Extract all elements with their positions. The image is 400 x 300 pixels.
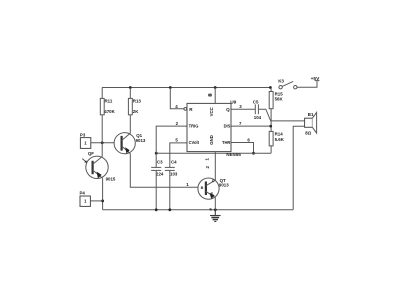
transistor Q1	[114, 133, 146, 154]
wire: QF emitter to ground rail	[102, 178, 104, 210]
wire: rail junction to R15 top	[270, 88, 272, 92]
node: R13 top junction	[129, 86, 132, 89]
svg-text:9013: 9013	[136, 138, 146, 143]
svg-text:NE555: NE555	[226, 152, 241, 158]
svg-text:9013: 9013	[219, 183, 229, 188]
svg-text:4: 4	[175, 104, 178, 109]
svg-text:1: 1	[204, 158, 209, 161]
wire: switch to +5V	[297, 81, 317, 88]
svg-text:R13: R13	[133, 99, 142, 104]
node: reset net junction	[169, 86, 172, 89]
wire: 555 CVolt pin 5 down to C4	[170, 143, 187, 167]
svg-text:1: 1	[186, 182, 189, 187]
svg-text:470K: 470K	[104, 109, 115, 114]
speaker B1	[305, 112, 317, 135]
svg-text:3: 3	[239, 104, 242, 109]
svg-text:C5: C5	[253, 99, 259, 104]
svg-text:TRIG: TRIG	[189, 123, 199, 128]
capacitor C3	[151, 160, 164, 177]
wire: C4 to ground rail	[169, 170, 171, 209]
wire: 555 THR pin 6 down to bus	[231, 143, 254, 154]
svg-text:B1: B1	[308, 112, 314, 117]
wire: +5V top rail	[102, 87, 270, 89]
svg-text:C3: C3	[157, 160, 163, 165]
resistor R14	[269, 131, 285, 146]
wire: 555 GND pin 1 to QT collector	[214, 152, 216, 181]
svg-text:224: 224	[156, 172, 164, 177]
connector P3	[80, 133, 91, 149]
wire: 555 output pin 3 to C5	[231, 108, 255, 110]
wire: R15 bottom to R14 top	[270, 109, 272, 132]
node: Q1 base junction	[101, 141, 104, 144]
node: C4 ground junction	[168, 208, 171, 211]
wire: rail to 555 reset pin 4	[170, 88, 183, 109]
wire: 555 DIS pin 7 to junction	[231, 125, 270, 127]
svg-text:K3: K3	[278, 78, 284, 83]
capacitor C4	[165, 160, 178, 177]
wire: R13 bottom to Q1 collector	[129, 115, 131, 134]
resistor R15	[269, 92, 283, 109]
svg-text:104: 104	[254, 115, 262, 120]
resistor R13	[128, 98, 141, 114]
wire: rail down to R13	[129, 88, 131, 99]
svg-text:DIS: DIS	[224, 123, 231, 128]
svg-text:8: 8	[208, 93, 213, 96]
svg-text:103: 103	[170, 172, 178, 177]
svg-text:7: 7	[239, 121, 242, 126]
svg-text:C: C	[212, 179, 215, 183]
svg-text:56K: 56K	[275, 97, 284, 102]
svg-text:5.6K: 5.6K	[275, 137, 285, 142]
ground	[210, 210, 221, 222]
node: TRIG C3 junction	[155, 152, 158, 155]
wire: R14 bottom to bus	[270, 146, 272, 153]
wire: 555 TRIG pin 2 down to C3	[156, 126, 187, 167]
wire: rail to 555 VCC pin 8	[214, 88, 216, 104]
wire: ground rail	[103, 209, 294, 211]
wire: QT emitter to ground rail	[214, 197, 216, 209]
svg-text:C4: C4	[171, 160, 177, 165]
wire: P3 to Q1 base	[91, 142, 122, 144]
svg-text:THR: THR	[222, 140, 230, 145]
node: P4 junction	[101, 200, 104, 203]
node: VCC pin junction	[214, 86, 217, 89]
svg-text:E: E	[211, 192, 214, 196]
connector P4	[80, 191, 91, 207]
svg-text:2: 2	[176, 121, 179, 126]
svg-text:+5V: +5V	[311, 76, 320, 82]
svg-text:Q: Q	[226, 107, 230, 112]
wire: Q1 emitter down and right to QT base	[130, 154, 204, 188]
svg-text:CVolt: CVolt	[189, 140, 200, 145]
op-amp U9 NE555 timer	[184, 100, 241, 158]
svg-text:GND: GND	[209, 135, 214, 145]
svg-text:2: 2	[205, 166, 210, 169]
svg-text:6: 6	[247, 138, 250, 143]
wire: timing bus TRIG/THR	[156, 152, 271, 154]
wire: R11 bottom to QF collector	[101, 115, 103, 157]
svg-text:8Ω: 8Ω	[305, 131, 311, 136]
svg-text:QF: QF	[88, 151, 94, 156]
transistor QF	[82, 151, 116, 182]
svg-text:U9: U9	[230, 100, 236, 106]
transistor QT	[198, 178, 229, 199]
svg-text:B: B	[201, 186, 204, 190]
svg-text:9015: 9015	[106, 177, 116, 182]
wire: C3 to ground rail	[155, 170, 157, 209]
svg-text:5: 5	[175, 138, 178, 143]
svg-text:R11: R11	[105, 99, 113, 104]
power +5V	[311, 76, 320, 82]
wire: ground rail up to speaker minus	[293, 126, 304, 210]
svg-text:VCC: VCC	[209, 107, 214, 116]
node: DIS junction	[269, 125, 272, 128]
svg-text:P3: P3	[80, 133, 86, 138]
node: switch junction	[269, 86, 272, 89]
node: C3 ground junction	[155, 208, 158, 211]
svg-text:P4: P4	[80, 191, 86, 196]
switch K3	[278, 78, 297, 89]
wire: C5 to speaker plus	[259, 109, 305, 121]
wire: P4 to QF emitter	[90, 200, 102, 202]
node: THR bus junction	[252, 152, 255, 155]
svg-text:2K: 2K	[133, 109, 139, 114]
node: QT emitter ground junction	[214, 208, 217, 211]
capacitor C5	[253, 99, 262, 120]
resistor R11	[100, 98, 115, 114]
wire: rail down to R11	[101, 88, 103, 99]
